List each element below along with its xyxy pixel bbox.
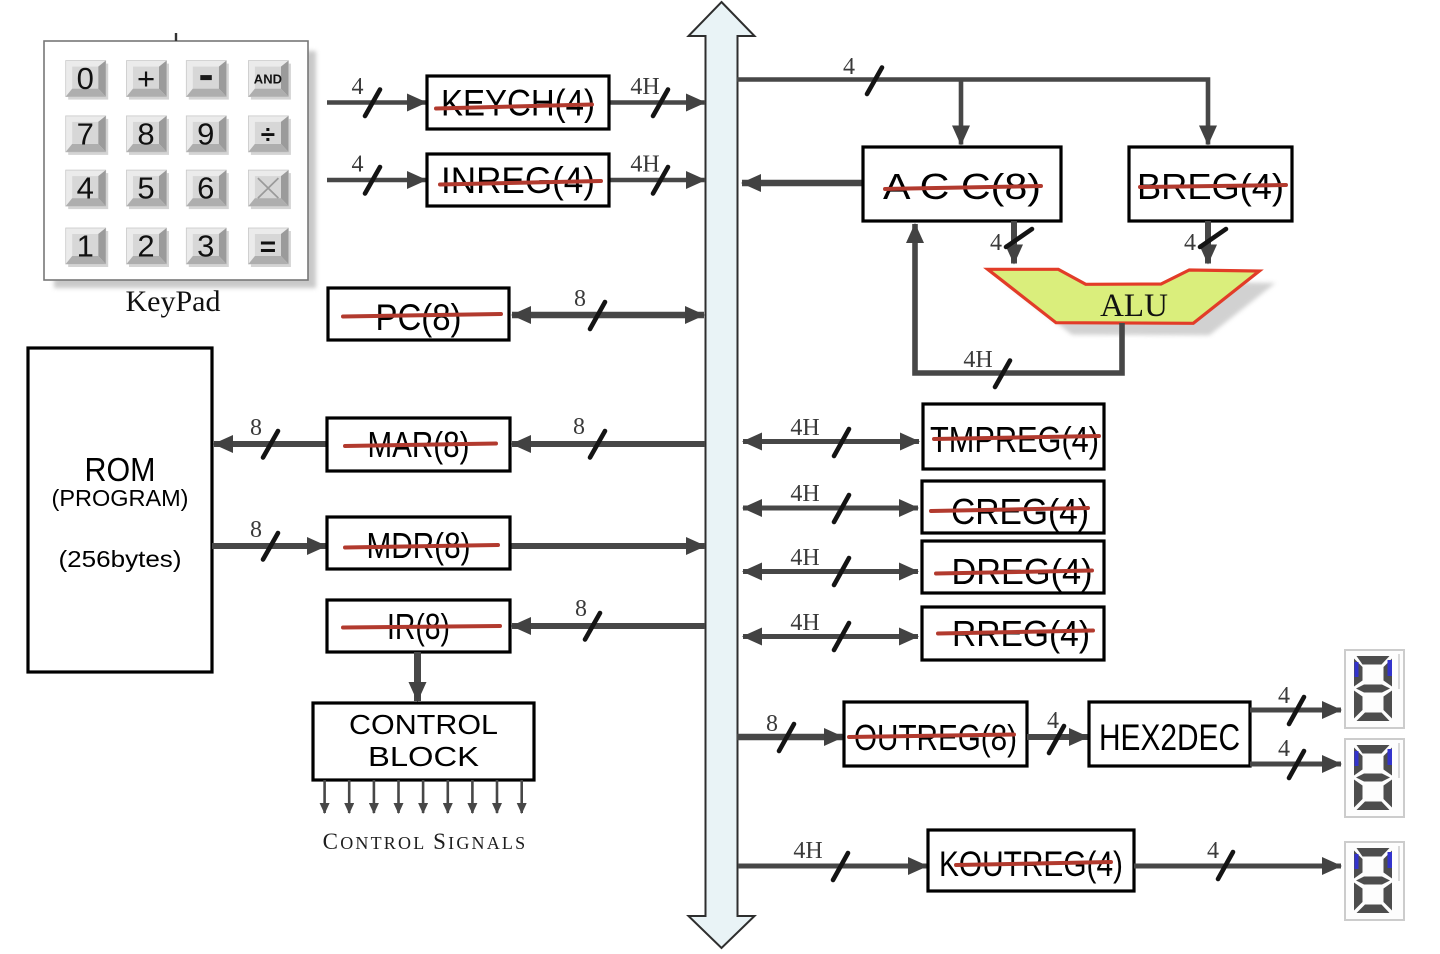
svg-text:(256bytes): (256bytes)	[59, 546, 182, 572]
control block	[313, 703, 534, 780]
wire TMPREG to bus, 4H bidirectional	[743, 415, 919, 456]
svg-text:AND: AND	[254, 72, 282, 87]
register DREG(4)	[922, 541, 1104, 593]
svg-text:8: 8	[574, 286, 586, 312]
svg-text:8: 8	[137, 116, 154, 151]
svg-text:4H: 4H	[793, 838, 822, 864]
control signal arrows	[325, 780, 522, 813]
wire ACC to ALU, 4 bits	[990, 221, 1032, 264]
wire OUTREG to HEX2DEC, 4 bits	[1027, 708, 1088, 753]
key 4	[66, 170, 109, 209]
key divide	[248, 116, 291, 155]
svg-text:CONTROL SIGNALS: CONTROL SIGNALS	[323, 829, 528, 854]
register KEYCH(4)	[427, 76, 609, 129]
svg-text:8: 8	[575, 596, 587, 622]
wire HEX2DEC to display 1, 4 bits	[1250, 683, 1341, 724]
ALU	[988, 269, 1260, 324]
register PC(8)	[328, 288, 509, 340]
svg-text:4: 4	[352, 74, 364, 100]
svg-text:6: 6	[197, 171, 214, 206]
svg-text:HEX2DEC: HEX2DEC	[1099, 717, 1240, 758]
wire CREG to bus, 4H bidirectional	[743, 481, 918, 522]
svg-text:4: 4	[77, 171, 94, 206]
key +	[127, 61, 170, 100]
svg-text:1: 1	[77, 229, 94, 264]
svg-text:4H: 4H	[790, 481, 819, 507]
svg-text:KEYCH(4): KEYCH(4)	[441, 83, 595, 124]
svg-text:4: 4	[1184, 230, 1196, 256]
wire MDR to bus	[510, 543, 705, 549]
svg-text:+: +	[137, 61, 155, 96]
wire ALU to ACC feedback, 4H	[915, 224, 1122, 387]
wire KOUTREG to display 3, 4 bits	[1134, 838, 1341, 879]
wire ACC to bus	[742, 180, 863, 187]
register MDR(8)	[327, 517, 510, 569]
keypad panel	[44, 33, 308, 280]
wire bus to IR, 8 bits	[512, 596, 705, 640]
wire INREG to bus, 4H	[609, 152, 705, 194]
wire keypad to KEYCH, 4 bits	[327, 74, 426, 116]
svg-text:8: 8	[766, 711, 778, 737]
key 8	[127, 116, 170, 155]
wire bus to OUTREG, 8 bits	[737, 711, 843, 751]
svg-text:4H: 4H	[790, 545, 819, 571]
key 3	[186, 228, 229, 267]
svg-text:4H: 4H	[790, 610, 819, 636]
svg-text:7: 7	[77, 116, 94, 151]
wire bus to ACC and BREG (top), 4 bits	[737, 54, 1208, 145]
register ACC(8)	[863, 147, 1061, 221]
wire keypad to INREG, 4 bits	[327, 152, 426, 194]
svg-text:4H: 4H	[630, 74, 659, 100]
key 1	[66, 228, 109, 267]
svg-text:4: 4	[1207, 838, 1219, 864]
key 9	[186, 116, 229, 155]
seven segment display 3	[1345, 842, 1404, 920]
register RREG(4)	[922, 607, 1104, 660]
register INREG(4)	[427, 154, 609, 206]
wire ROM to MDR, 8 bits	[212, 517, 326, 560]
svg-text:4: 4	[1278, 736, 1290, 762]
main data bus (vertical double arrow)	[689, 2, 755, 948]
svg-text:8: 8	[250, 517, 262, 543]
key 6	[186, 170, 229, 209]
key AND	[248, 61, 291, 100]
register BREG(4)	[1129, 147, 1292, 221]
key multiply	[248, 170, 291, 209]
svg-text:=: =	[260, 231, 276, 262]
svg-text:CONTROL: CONTROL	[349, 709, 498, 740]
svg-text:KeyPad: KeyPad	[126, 285, 221, 318]
wire DREG to bus, 4H bidirectional	[743, 545, 918, 585]
key 2	[127, 228, 170, 267]
svg-text:3: 3	[197, 229, 214, 264]
seven segment display 1	[1345, 650, 1404, 728]
svg-text:8: 8	[250, 415, 262, 441]
svg-text:ALU: ALU	[1100, 288, 1168, 324]
register IR(8)	[327, 600, 510, 652]
key 7	[66, 116, 109, 155]
register OUTREG(8)	[844, 702, 1027, 766]
wire BREG to ALU, 4 bits	[1184, 221, 1226, 264]
wire HEX2DEC to display 2, 4 bits	[1250, 736, 1341, 778]
key =	[248, 228, 291, 267]
svg-text:(PROGRAM): (PROGRAM)	[52, 485, 189, 511]
key 5	[127, 170, 170, 209]
wire RREG to bus, 4H bidirectional	[743, 610, 918, 650]
svg-text:0: 0	[77, 61, 94, 96]
key -	[186, 61, 229, 100]
wire PC to bus, 8 bits bidirectional	[512, 286, 704, 329]
ALU shadow	[1004, 281, 1276, 335]
wire bus to MAR, 8 bits	[512, 414, 705, 458]
register CREG(4)	[922, 481, 1104, 533]
converter HEX2DEC	[1089, 702, 1250, 766]
register MAR(8)	[327, 418, 510, 471]
svg-text:8: 8	[573, 414, 585, 440]
svg-text:4H: 4H	[790, 415, 819, 441]
svg-text:4: 4	[1278, 683, 1290, 709]
ROM block	[28, 348, 212, 672]
keypad shadow	[54, 51, 316, 288]
svg-text:4H: 4H	[963, 347, 992, 373]
svg-text:4: 4	[1047, 708, 1059, 734]
key 0	[66, 61, 109, 100]
svg-text:4: 4	[990, 230, 1002, 256]
svg-text:ROM: ROM	[85, 451, 156, 488]
register KOUTREG(4)	[928, 830, 1134, 891]
svg-text:BLOCK: BLOCK	[368, 741, 479, 772]
svg-text:4H: 4H	[630, 152, 659, 178]
wire IR to control block	[414, 652, 421, 701]
svg-text:4: 4	[843, 54, 855, 80]
register TMPREG(4)	[923, 404, 1104, 469]
svg-text:÷: ÷	[261, 119, 275, 149]
wire bus to KOUTREG, 4H	[738, 838, 927, 880]
seven segment display 2	[1345, 739, 1404, 817]
svg-text:4: 4	[352, 152, 364, 178]
wire MAR to ROM, 8 bits	[214, 415, 327, 458]
svg-text:9: 9	[197, 116, 214, 151]
wire KEYCH to bus, 4H	[609, 74, 705, 116]
svg-text:5: 5	[137, 171, 154, 206]
svg-text:2: 2	[137, 229, 154, 264]
